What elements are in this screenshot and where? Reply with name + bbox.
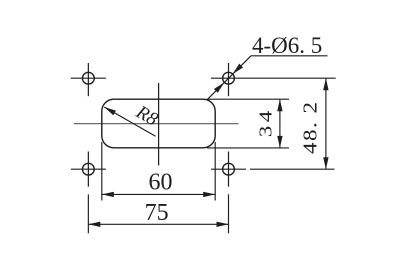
dim 75 arrow left bbox=[88, 222, 100, 227]
dim 75 line bbox=[88, 223, 228, 225]
svg-text:60: 60 bbox=[149, 170, 173, 196]
R8 leader arrow bbox=[104, 107, 116, 115]
dim 60 arrow right bbox=[203, 192, 215, 197]
dim 34 extension line top bbox=[207, 98, 289, 100]
dim 75 arrow right bbox=[217, 222, 229, 227]
svg-text:75: 75 bbox=[145, 200, 169, 226]
dim 48.2 extension line top bbox=[246, 77, 336, 79]
dim 48.2 arrow bottom bbox=[323, 157, 328, 169]
horizontal centerline of slot bbox=[74, 123, 239, 125]
dim 48.2 arrow top bbox=[323, 78, 328, 90]
dim 48.2 extension line bottom bbox=[250, 168, 335, 170]
hole TR crosshair bbox=[211, 63, 246, 96]
leader arrow lower (points to circle, up-right) bbox=[214, 82, 224, 92]
leader 4-O6.5: diagonal through hole TR bbox=[207, 56, 252, 101]
dim 34 line bbox=[279, 99, 281, 148]
hole TR circle bbox=[223, 72, 235, 84]
dim 34 extension line bottom bbox=[207, 147, 289, 149]
svg-text:34: 34 bbox=[257, 107, 276, 137]
dim 60 arrow left bbox=[102, 192, 114, 197]
hole TL circle bbox=[82, 72, 94, 84]
svg-text:48. 2: 48. 2 bbox=[299, 100, 321, 153]
hole BL centerline extension down bbox=[87, 194, 89, 233]
dim 48.2 line bbox=[325, 78, 327, 169]
hole BL crosshair bbox=[71, 152, 106, 187]
dim 34 arrow top bbox=[277, 99, 282, 111]
slot cutout (rounded rectangle) bbox=[102, 99, 215, 148]
R8 leader line bbox=[104, 107, 155, 136]
dim 60 line bbox=[102, 193, 215, 195]
hole BR crosshair bbox=[211, 152, 246, 187]
dim 60 extension line right bbox=[214, 142, 216, 201]
svg-text:4-Ø6. 5: 4-Ø6. 5 bbox=[252, 33, 322, 58]
hole BR centerline extension down bbox=[228, 194, 230, 233]
dim 34 arrow bottom bbox=[277, 136, 282, 148]
leader 4-O6.5: underline bbox=[251, 55, 328, 57]
hole TL crosshair bbox=[71, 63, 106, 96]
vertical centerline of slot bbox=[158, 83, 160, 166]
hole BR circle bbox=[223, 163, 235, 175]
dim 60 extension line left bbox=[101, 142, 103, 201]
hole BL circle bbox=[82, 163, 94, 175]
leader arrow upper (points to circle, down-left) bbox=[233, 64, 243, 74]
